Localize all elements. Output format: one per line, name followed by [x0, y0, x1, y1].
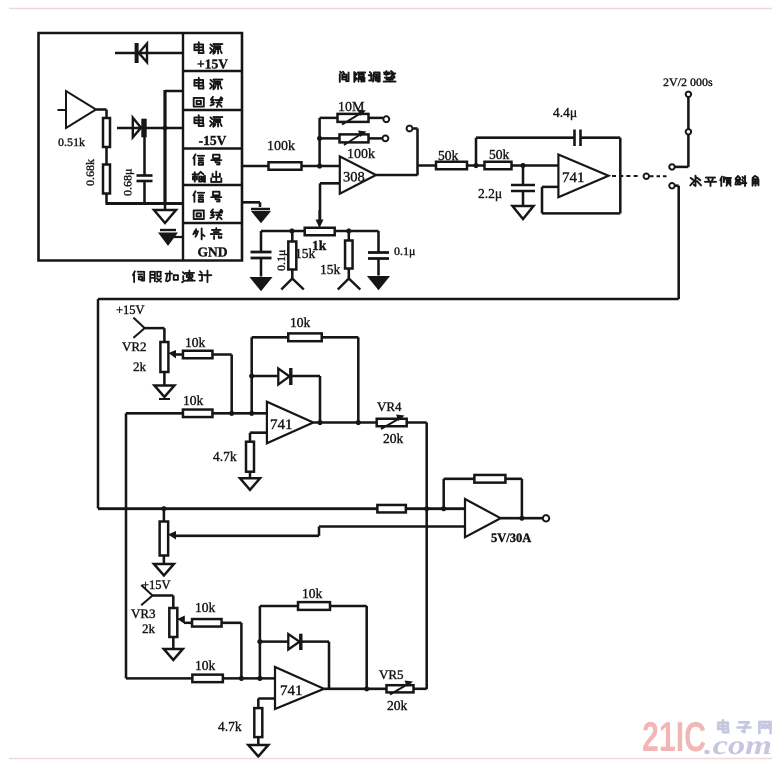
741c plus input — [258, 697, 275, 700]
label 电源+15V — [194, 42, 203, 53]
svg-text:2.2μ: 2.2μ — [478, 186, 502, 201]
ground 0.1u right — [368, 277, 389, 290]
junction inv a2 — [249, 411, 254, 416]
resistor 10k fb b — [298, 602, 330, 610]
svg-text:10k: 10k — [290, 315, 311, 330]
contact mid 2V — [686, 129, 691, 134]
terminal cell divider 2 — [183, 109, 242, 111]
svg-text:2k: 2k — [133, 359, 147, 374]
svg-text:-15V: -15V — [199, 133, 227, 148]
pot 1k — [305, 228, 335, 236]
svg-text:+15V: +15V — [197, 57, 228, 72]
svg-text:741: 741 — [270, 417, 293, 433]
resistor 15k b — [348, 231, 351, 241]
switch contact top — [669, 164, 674, 169]
svg-text:0.68μ: 0.68μ — [121, 169, 135, 196]
pot VR3 — [169, 608, 177, 637]
741b plus input — [250, 431, 267, 434]
contact top 2V — [686, 92, 691, 97]
resistor 15k a — [291, 231, 294, 242]
wire 10k b2 out — [223, 677, 275, 680]
supply arrow b — [338, 279, 349, 290]
junction 15k b — [346, 228, 351, 233]
junction fb — [473, 163, 478, 168]
resistor 0.68k — [103, 165, 110, 194]
resistor 4.7k b — [254, 708, 262, 737]
ground VR3 — [172, 637, 175, 649]
wire 741b out — [313, 421, 376, 424]
feedback wire right — [581, 136, 621, 139]
wiper wire — [175, 535, 319, 538]
drive wire — [98, 507, 465, 510]
feedback to lower — [675, 184, 679, 187]
label 水平倾斜角 — [690, 176, 701, 186]
terminal cell divider 5 — [183, 222, 242, 224]
pink rule bottom — [9, 758, 772, 760]
junction bus-D2 — [162, 125, 167, 130]
fb vertical b — [259, 606, 262, 678]
label 信号输出 — [193, 154, 204, 165]
op-amp 741 c — [275, 667, 324, 709]
fb vertical a — [250, 337, 253, 413]
svg-text:741: 741 — [562, 170, 585, 186]
resistor drive — [377, 505, 406, 513]
svg-text:100k: 100k — [267, 139, 295, 154]
resistor 50k a — [436, 162, 467, 170]
resistor amp fb — [474, 475, 505, 483]
label 外壳GND — [193, 228, 204, 239]
label 电源-15V — [194, 115, 203, 126]
wire 50k-741 — [512, 164, 559, 167]
output dashed — [612, 175, 640, 177]
svg-text:10M: 10M — [338, 100, 365, 115]
caption 伺服加速计 — [133, 271, 144, 282]
wire 10k a2 out — [213, 412, 267, 415]
junction A2 — [317, 163, 322, 168]
ground 2.2u — [513, 206, 534, 219]
wire 2V upper — [687, 97, 690, 129]
op-amp 308 — [340, 156, 376, 193]
resistor 50k b — [485, 162, 512, 170]
diode D1 — [135, 43, 139, 63]
ground signal return — [242, 201, 260, 204]
svg-text:0.51k: 0.51k — [58, 135, 85, 149]
svg-text:2k: 2k — [142, 621, 156, 636]
svg-text:VR2: VR2 — [122, 339, 147, 354]
terminal column divider — [182, 33, 184, 261]
ground VR2 — [163, 372, 166, 385]
pot feedback — [163, 509, 166, 521]
amp feedback — [442, 479, 445, 509]
label 间隔调整 — [340, 72, 349, 82]
pot 10M — [320, 117, 338, 120]
wire 308 noninv — [320, 182, 340, 185]
terminal cell divider 3 — [183, 147, 242, 149]
resistor 10k fb a — [288, 333, 322, 341]
resistor 100k input — [269, 162, 302, 170]
741a plus loop — [542, 186, 558, 189]
wire signal out — [242, 165, 269, 168]
feedback wire up — [475, 138, 478, 166]
junction A1 — [317, 136, 322, 141]
resistor 10k b1 — [192, 619, 222, 627]
wire bus to cell2 — [165, 90, 183, 92]
wire opamp out — [96, 108, 107, 111]
wire 50k-50k — [467, 164, 485, 167]
svg-text:50k: 50k — [438, 148, 459, 163]
pot 100k — [320, 137, 340, 140]
op-amp 741 a — [558, 155, 608, 198]
resistor 10k b2 — [192, 675, 223, 683]
svg-text:.com: .com — [704, 730, 772, 760]
resistor 4.7k a — [246, 442, 254, 472]
svg-text:2V/2 000s: 2V/2 000s — [663, 75, 713, 89]
bus vertical — [163, 90, 166, 205]
capacitor 0.1u left — [260, 231, 263, 252]
ground fb pot — [163, 556, 166, 564]
pot VR5 — [387, 685, 414, 692]
junction drive pot — [161, 506, 166, 511]
svg-text:20k: 20k — [387, 698, 408, 713]
label 电源回线 — [194, 78, 203, 89]
wire 10k a2 left — [126, 412, 183, 415]
resistor 10k a1 — [183, 351, 213, 359]
op-amp power — [465, 499, 501, 537]
diode D3 — [252, 375, 279, 378]
junction rail drive — [424, 506, 429, 511]
svg-text:10k: 10k — [195, 600, 216, 615]
capacitor 0.68u — [143, 128, 146, 176]
amp output — [501, 517, 543, 520]
label 信号回线 — [193, 191, 204, 202]
svg-text:15k: 15k — [320, 262, 341, 277]
op-amp 741 b — [267, 402, 313, 444]
svg-text:10k: 10k — [185, 335, 206, 350]
logo 电子网 — [718, 720, 728, 732]
fb top a — [252, 336, 359, 339]
fb right a — [357, 337, 360, 422]
diode D2 — [133, 118, 141, 138]
svg-text:100k: 100k — [347, 147, 375, 162]
supply chevron b — [141, 585, 152, 596]
svg-text:10k: 10k — [302, 586, 323, 601]
svg-text:4.7k: 4.7k — [218, 719, 242, 734]
svg-text:308: 308 — [343, 170, 365, 186]
pot VR4 — [377, 419, 407, 427]
capacitor 2.2u — [522, 166, 525, 186]
svg-text:VR5: VR5 — [379, 667, 404, 682]
accelerometer box outline — [39, 33, 243, 261]
svg-text:+15V: +15V — [116, 303, 145, 317]
diode D2 line — [117, 127, 183, 129]
resistor 0.51k — [103, 118, 110, 147]
junction out b2 — [364, 686, 369, 691]
svg-text:20k: 20k — [383, 431, 404, 446]
capacitor 0.1u right — [377, 231, 380, 253]
case ground — [168, 236, 183, 238]
svg-text:50k: 50k — [489, 147, 510, 162]
junction inv b1 — [239, 676, 244, 681]
pot VR2 — [160, 342, 168, 372]
wire 50k branch — [418, 164, 437, 167]
svg-text:10k: 10k — [195, 658, 216, 673]
wire 10k b1 out — [222, 622, 242, 625]
wire chev-pot b — [153, 594, 174, 597]
junction out a1 — [317, 420, 322, 425]
junction out a2 — [356, 420, 361, 425]
wire 10k a1 out — [213, 353, 232, 356]
diode D4 — [260, 640, 288, 643]
wire pot bus — [261, 230, 379, 233]
supply arrow a — [281, 279, 292, 290]
svg-text:0.1μ: 0.1μ — [274, 250, 288, 271]
svg-text:4.4μ: 4.4μ — [553, 105, 577, 120]
svg-text:741: 741 — [280, 683, 303, 699]
fb right b — [365, 606, 368, 689]
pink rule top — [9, 8, 772, 10]
wire r2-bottom — [105, 194, 108, 204]
switch wiper — [407, 126, 413, 132]
wire to node A — [302, 165, 340, 168]
wire 10k b2 left — [126, 677, 192, 680]
diode D1 line — [115, 52, 183, 55]
wire VR4 out — [407, 421, 427, 424]
svg-text:0.68k: 0.68k — [83, 159, 97, 186]
wire 308 out — [376, 174, 418, 177]
wire contact to 2V — [675, 166, 689, 169]
junction 15k a — [289, 228, 294, 233]
fb top b — [260, 605, 367, 608]
left rail down — [125, 413, 128, 678]
op-amp A0 — [66, 91, 96, 128]
svg-text:5V/30A: 5V/30A — [491, 531, 531, 545]
svg-text:10k: 10k — [183, 393, 204, 408]
terminal cell divider 1 — [183, 70, 242, 72]
wire bottom bus — [106, 202, 184, 205]
ground 0.1u left — [251, 278, 272, 291]
capacitor 4.4u — [573, 130, 576, 147]
svg-text:0.1μ: 0.1μ — [394, 244, 415, 258]
svg-text:VR4: VR4 — [377, 399, 402, 414]
resistor 10k a2 — [183, 410, 213, 418]
svg-text:4.7k: 4.7k — [213, 449, 237, 464]
wire 741c out — [324, 688, 387, 691]
svg-text:VR3: VR3 — [131, 606, 156, 621]
junction 2.2u — [520, 163, 525, 168]
switch contact bottom — [669, 183, 674, 188]
ground bus — [164, 205, 167, 211]
svg-text:1k: 1k — [312, 238, 327, 253]
wire VR5 out — [414, 688, 427, 691]
supply chevron a — [133, 318, 144, 329]
wire r1-r2 — [105, 147, 108, 165]
junction inv b2 — [257, 676, 262, 681]
ground 4.7k a — [249, 472, 252, 479]
wire chev-pot a — [145, 327, 165, 330]
ground 4.7k b — [257, 737, 260, 745]
svg-text:21IC: 21IC — [642, 713, 706, 760]
node A vertical — [318, 118, 321, 166]
svg-text:GND: GND — [198, 245, 228, 260]
terminal cell divider 4 — [183, 184, 242, 186]
junction fb amp — [441, 506, 446, 511]
junction inv a1 — [229, 411, 234, 416]
